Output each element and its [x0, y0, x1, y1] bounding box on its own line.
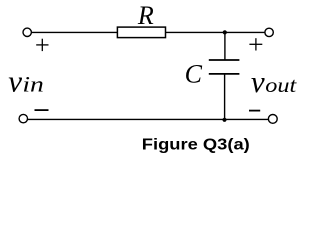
- svg-text:v: v: [251, 64, 265, 99]
- svg-text:R: R: [137, 1, 154, 30]
- svg-text:C: C: [185, 60, 203, 89]
- svg-text:v: v: [8, 63, 22, 98]
- svg-text:out: out: [265, 73, 297, 97]
- svg-text:in: in: [22, 71, 44, 96]
- svg-text:Figure Q3(a): Figure Q3(a): [142, 136, 250, 153]
